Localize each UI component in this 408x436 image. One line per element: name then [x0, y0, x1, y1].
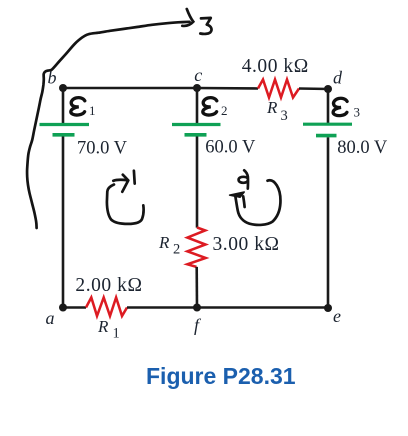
emf symbol E2: [203, 98, 217, 115]
wire c-R3 (top horizontal): [197, 87, 258, 90]
battery E1 short plate: [53, 133, 75, 137]
svg-text:d: d: [333, 68, 343, 88]
pen loop 1 digit 1 tick: [133, 171, 137, 184]
pen arrowhead at top: [182, 9, 193, 26]
node a: [59, 304, 67, 312]
svg-text:1: 1: [113, 326, 120, 342]
pen digit 3 (top): [200, 18, 211, 34]
battery E2 short plate: [185, 133, 207, 137]
svg-text:e: e: [333, 306, 341, 326]
svg-text:1: 1: [89, 103, 96, 118]
wire b-c (top left horizontal): [63, 87, 197, 90]
resistor R1: [86, 298, 127, 317]
svg-text:Figure P28.31: Figure P28.31: [146, 363, 296, 389]
resistor R3: [258, 80, 299, 98]
wire battery E2-R2 (middle vertical): [196, 137, 199, 228]
svg-text:R: R: [158, 233, 170, 252]
wire b-battery E1 (left vertical upper): [62, 88, 65, 124]
resistor R2: [187, 228, 205, 267]
wire battery E3-e (right vertical lower): [327, 137, 330, 308]
svg-text:4.00 kΩ: 4.00 kΩ: [242, 56, 309, 77]
pen loop 2 arrow tick: [243, 196, 244, 207]
pen loop 1 arrowhead: [122, 175, 128, 192]
node c: [193, 84, 201, 92]
node b: [59, 84, 67, 92]
wire c-battery E2 (middle vertical upper): [196, 88, 199, 124]
emf symbol E1: [71, 98, 85, 115]
svg-text:2: 2: [173, 242, 180, 258]
svg-text:2.00 kΩ: 2.00 kΩ: [75, 275, 142, 296]
svg-text:3: 3: [281, 108, 288, 124]
svg-text:R: R: [97, 317, 109, 336]
svg-text:2: 2: [221, 103, 228, 118]
wire d-battery E3 (right vertical upper): [327, 89, 330, 124]
pen digit 2 (right mesh label): [239, 170, 248, 188]
battery E2 long plate: [172, 123, 221, 126]
svg-text:3.00 kΩ: 3.00 kΩ: [213, 234, 280, 255]
wire battery E1-a (left vertical lower): [62, 137, 65, 308]
node f: [193, 304, 201, 312]
svg-text:a: a: [46, 308, 55, 328]
wire R2-f (middle vertical lower): [195, 267, 198, 308]
svg-text:3: 3: [354, 105, 361, 120]
pen loop 2 (right mesh, open circle): [235, 180, 280, 225]
svg-text:f: f: [194, 315, 202, 335]
svg-text:80.0 V: 80.0 V: [337, 138, 388, 158]
pen loop 2 arrowhead: [230, 192, 245, 197]
svg-text:R: R: [266, 98, 278, 117]
node e: [324, 304, 332, 312]
svg-text:c: c: [194, 65, 202, 85]
pen loop 1 arrow shaft: [113, 180, 127, 181]
svg-text:70.0 V: 70.0 V: [77, 139, 128, 159]
wire R3-d: [299, 87, 329, 90]
svg-text:60.0 V: 60.0 V: [205, 138, 256, 158]
pen stroke: long curve from bottom left up to top arrow: [27, 22, 189, 228]
pen loop 1 (left mesh, open rounded loop): [107, 185, 144, 224]
node d: [324, 85, 332, 93]
wire R1-f-e (bottom horizontal): [127, 306, 328, 309]
battery E1 long plate: [40, 123, 90, 126]
wire a-R1 (bottom left): [63, 306, 86, 309]
emf symbol E3: [333, 98, 347, 115]
battery E3 short plate: [316, 134, 337, 138]
battery E3 long plate: [303, 123, 352, 126]
